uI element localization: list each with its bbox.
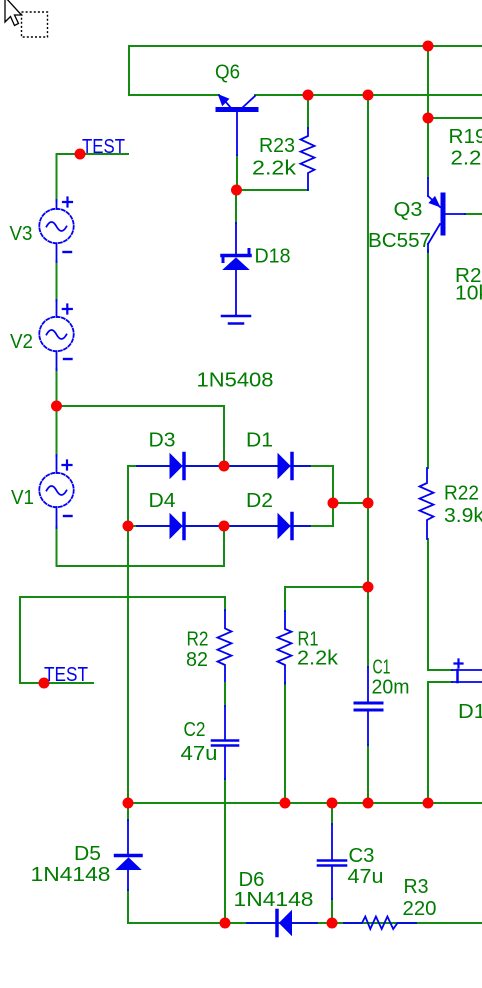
svg-text:C3: C3	[349, 845, 375, 867]
wire R2 top	[224, 597, 226, 610]
svg-text:TEST: TEST	[82, 136, 125, 158]
svg-text:20m: 20m	[372, 677, 410, 699]
junction top rail / x428 node	[423, 41, 434, 52]
svg-text:D6: D6	[239, 869, 265, 891]
zener diode D18	[222, 223, 250, 315]
svg-text:D18: D18	[255, 246, 291, 268]
voltage source V1	[39, 455, 73, 528]
wire Q6 base down	[236, 155, 238, 190]
wire bridge row2	[128, 525, 333, 527]
diode D3	[137, 454, 218, 479]
svg-text:1N5408: 1N5408	[197, 370, 274, 392]
wire R1 top	[284, 587, 286, 611]
svg-text:2.2k: 2.2k	[252, 158, 297, 180]
svg-text:D1: D1	[246, 430, 273, 452]
svg-text:D3: D3	[149, 430, 176, 452]
wire x428 below Q3	[427, 250, 429, 468]
wire left drop	[128, 46, 130, 95]
svg-text:10k: 10k	[455, 283, 482, 305]
junction bridge output on x368 rail	[363, 498, 374, 509]
junction rail2 / x368 rail node	[363, 90, 374, 101]
wire y566	[57, 565, 225, 567]
wire R19	[428, 117, 482, 119]
wire rail2 right	[255, 94, 482, 96]
wire rail2 left	[129, 94, 219, 96]
wire bridge mid upper vertical	[223, 406, 225, 466]
svg-text:TEST: TEST	[44, 664, 88, 686]
svg-text:2.2k: 2.2k	[451, 148, 482, 170]
resistor R2	[218, 610, 232, 683]
junction R1 wire on x368 rail	[363, 582, 374, 593]
svg-text:D2: D2	[246, 490, 273, 512]
svg-text:2.2k: 2.2k	[297, 648, 339, 670]
diode D1	[230, 454, 310, 479]
junction bridge left DC- node	[123, 521, 134, 532]
wire bridge row1	[128, 465, 333, 467]
svg-text:V2: V2	[10, 331, 33, 353]
wire TEST net top	[57, 153, 129, 155]
wire C2 bottom	[224, 779, 226, 923]
wire x428 below R22	[427, 539, 429, 670]
wire R23 bottom to node	[236, 189, 308, 191]
wire D18 top	[235, 190, 237, 223]
wire y406	[57, 405, 225, 407]
transistor Q3	[428, 178, 465, 252]
wire V2 bottom	[56, 369, 58, 406]
wire TEST net bottom	[20, 682, 93, 684]
svg-text:R2: R2	[187, 629, 209, 651]
svg-text:BC557: BC557	[368, 230, 431, 252]
svg-text:D4: D4	[149, 490, 176, 512]
capacitor C3	[318, 824, 346, 899]
svg-text:Q3: Q3	[394, 199, 423, 221]
wire y587	[285, 586, 368, 588]
svg-text:D5: D5	[74, 843, 101, 865]
diode D2	[230, 514, 310, 539]
resistor R1	[278, 611, 292, 684]
svg-text:1N4148: 1N4148	[234, 889, 314, 911]
junction bridge DC+ output node	[328, 498, 339, 509]
junction ground rail / C1 branch	[363, 798, 374, 809]
capacitor C1	[355, 667, 382, 745]
transistor Q6	[218, 95, 256, 155]
wire bridge output	[333, 502, 368, 504]
wire main vertical x368 upper	[367, 95, 369, 667]
wire cap top left	[428, 669, 452, 671]
junction ground rail / R1 branch	[280, 798, 291, 809]
svg-text:V1: V1	[11, 487, 34, 509]
wire main vertical x368 lower	[367, 745, 369, 803]
junction bottom wire / C3-R3 node	[327, 918, 338, 929]
voltage source V2	[39, 300, 73, 370]
svg-text:82: 82	[186, 649, 208, 671]
wire C3 bottom	[331, 899, 333, 923]
junction TEST net top	[75, 149, 86, 160]
wire top rail	[129, 45, 482, 47]
wire box top	[20, 596, 225, 598]
wire Q3 base right	[465, 213, 482, 215]
wire x428 bottom	[427, 682, 429, 803]
svg-text:1N4148: 1N4148	[31, 864, 111, 886]
wire bottom y925	[128, 922, 482, 924]
voltage source V3	[39, 198, 73, 263]
junction bridge D4-D2 AC node	[219, 521, 230, 532]
svg-text:R22: R22	[444, 483, 479, 505]
wire bridge mid lower vertical	[223, 526, 225, 566]
mouse cursor arrow	[5, 0, 22, 26]
wire R23 top lead	[307, 95, 309, 128]
junction ground rail / x428 branch	[423, 798, 434, 809]
svg-text:220: 220	[403, 898, 437, 920]
junction TEST net bottom	[39, 678, 50, 689]
wire V3 top	[56, 154, 58, 201]
diode D6	[247, 911, 317, 936]
wire R1 bottom	[284, 683, 286, 803]
svg-text:D19: D19	[458, 701, 482, 723]
junction R19 wire node	[423, 113, 434, 124]
svg-text:R3: R3	[404, 876, 429, 898]
svg-text:Q6: Q6	[215, 62, 240, 84]
svg-text:R19: R19	[449, 126, 482, 148]
wire ground rail y803	[128, 802, 482, 804]
wire box left	[19, 597, 21, 683]
junction rail2 / R23 node	[303, 90, 314, 101]
svg-text:C2: C2	[184, 719, 206, 741]
svg-text:3.9k: 3.9k	[444, 505, 482, 527]
diode D4	[137, 514, 218, 539]
junction bottom wire / C2 branch	[220, 918, 231, 929]
wire C3 top	[331, 803, 333, 824]
svg-text:R23: R23	[259, 135, 295, 157]
resistor R22	[420, 468, 434, 539]
ground	[222, 316, 250, 324]
wire node-V1	[56, 406, 58, 456]
wire V1 bottom	[56, 527, 58, 566]
resistor R3	[344, 917, 416, 930]
wire D5 bottom	[127, 890, 129, 923]
junction ground rail / C3 branch	[327, 798, 338, 809]
cursor selection box	[22, 12, 48, 37]
wire left bridge vertical	[127, 466, 129, 820]
svg-text:V3: V3	[10, 223, 33, 245]
junction bridge D3-D1 AC top node	[219, 461, 230, 472]
resistor R23	[301, 128, 315, 190]
wire cap bottom left	[428, 681, 452, 683]
junction Q6 base / R23 / D18 node	[231, 185, 242, 196]
wire V3-V2	[56, 261, 58, 301]
svg-text:47u: 47u	[348, 866, 384, 888]
diode D5	[116, 820, 142, 890]
wire bridge right vertical	[332, 466, 334, 526]
junction V2-V1 / bridge AC node	[51, 401, 62, 412]
capacitor C2	[212, 683, 238, 779]
svg-text:C1: C1	[373, 657, 391, 679]
svg-text:47u: 47u	[181, 743, 218, 765]
wire x428 top	[427, 46, 429, 178]
capacitor C4 polarized	[452, 660, 482, 683]
junction ground rail / D5 branch	[123, 798, 134, 809]
